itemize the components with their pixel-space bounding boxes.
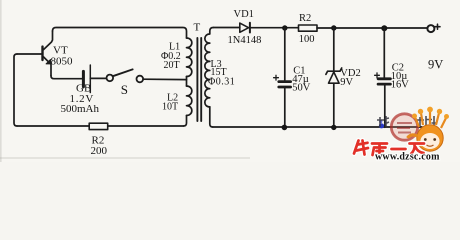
svg-text:50V: 50V — [292, 83, 311, 94]
svg-text:8050: 8050 — [51, 55, 74, 67]
transistor VT1 collector lead — [44, 31, 53, 50]
capacitor C2 plates — [378, 77, 390, 80]
battery GB negative plate (short thick) — [82, 71, 85, 86]
transistor VT1 emitter lead with arrow — [44, 57, 52, 76]
watermark: red text wei-ku-yi-xia — [354, 141, 424, 156]
svg-text:R2: R2 — [299, 13, 311, 24]
output terminal + sign — [435, 24, 440, 29]
wire: VD1 to R2 (100) — [250, 27, 299, 29]
resistor R2 (200 ohm) body — [89, 123, 108, 129]
svg-text:S: S — [121, 82, 128, 97]
switch S throw contact — [137, 76, 144, 83]
switch S lever — [113, 69, 133, 76]
svg-text:10T: 10T — [162, 101, 178, 112]
wire: R2 to output terminal — [317, 27, 427, 29]
output terminal + circle — [427, 25, 434, 32]
capacitor C1 plates — [279, 80, 291, 83]
watermark: blue junction dot — [379, 123, 384, 128]
zener diode VD2 cathode bar with ticks — [326, 68, 342, 74]
battery GB positive plate (long thin) — [89, 65, 91, 93]
watermark: dark glyphs (find IC text) — [377, 116, 437, 128]
inductor L3 secondary winding (8 turns) — [205, 28, 213, 107]
transistor VT1 base lead — [17, 53, 43, 55]
wire: battery to switch — [90, 77, 106, 79]
node: junction bottom of VD2 — [331, 125, 336, 130]
wire: L3 bottom lead to bottom-right rail — [210, 107, 213, 127]
scan artifact: faint bottom smudge — [0, 157, 250, 159]
inductor L1 primary winding (4 turns) — [187, 38, 192, 77]
transistor VT1 base bar — [41, 47, 43, 60]
svg-text:9V: 9V — [340, 77, 353, 88]
svg-text:500mAh: 500mAh — [61, 103, 100, 115]
transformer T core — [196, 38, 198, 121]
scan artifact: left edge band — [0, 0, 2, 162]
wire: left vertical — [14, 54, 17, 126]
watermark: red stamp circle — [391, 114, 417, 140]
svg-text:Φ0.31: Φ0.31 — [208, 76, 235, 87]
wire: L2 bottom to bottom-left rail — [184, 116, 187, 127]
diode VD1 triangle — [240, 23, 249, 32]
capacitor C2 polarity + — [375, 73, 380, 78]
svg-text:100: 100 — [299, 34, 315, 45]
svg-text:VD1: VD1 — [234, 9, 254, 20]
zener diode VD2 top lead — [333, 28, 335, 71]
svg-text:16V: 16V — [391, 80, 410, 91]
capacitor C2 top lead — [383, 28, 385, 78]
watermark: mascot (orange cartoon) — [408, 107, 450, 152]
svg-text:200: 200 — [91, 145, 108, 157]
wire: switch to transformer center tap — [143, 78, 186, 80]
svg-text:www.dzsc.com: www.dzsc.com — [375, 152, 440, 162]
svg-text:T: T — [194, 22, 201, 34]
node: junction top of C1 — [282, 25, 287, 30]
node: junction top of VD2 — [331, 25, 336, 30]
inductor L2 primary winding (3 turns) — [187, 86, 192, 116]
svg-text:20T: 20T — [164, 60, 180, 71]
capacitor C2 bottom lead — [384, 85, 386, 127]
capacitor C1 top lead — [284, 28, 286, 80]
svg-text:1N4148: 1N4148 — [228, 35, 262, 46]
wire: emitter to battery — [51, 76, 82, 79]
node: junction bottom of C1 — [282, 125, 288, 131]
switch S pole contact — [107, 75, 114, 82]
diode VD1 cathode bar — [249, 23, 251, 33]
wire: top rail left (collector to L1 top) — [53, 28, 187, 39]
wire: primary winding center tap segment — [186, 77, 188, 87]
node: junction top of C2 — [381, 25, 387, 31]
svg-text:9V: 9V — [428, 58, 443, 72]
capacitor C1 polarity + — [274, 75, 279, 80]
wire: bottom-right rail — [213, 126, 422, 128]
wire: bottom-left rail — [17, 125, 184, 127]
resistor R2 (100 ohm) body — [299, 25, 318, 31]
wire: top rail right (L3 top to diode VD1) — [213, 27, 240, 29]
zener diode VD2 triangle — [329, 72, 340, 83]
capacitor C1 bottom lead — [284, 88, 286, 128]
zener diode VD2 bottom lead — [333, 83, 335, 127]
